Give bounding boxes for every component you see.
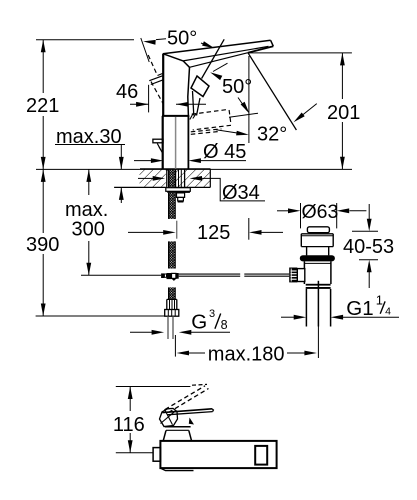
- svg-text:Ø63: Ø63: [302, 201, 339, 223]
- svg-text:3: 3: [209, 308, 215, 320]
- svg-text:50°: 50°: [167, 28, 197, 50]
- svg-text:1: 1: [376, 293, 383, 308]
- svg-text:max.30: max.30: [56, 126, 122, 148]
- svg-text:125: 125: [197, 222, 230, 244]
- svg-text:221: 221: [26, 95, 59, 117]
- svg-text:4: 4: [385, 305, 391, 317]
- svg-text:390: 390: [26, 234, 59, 256]
- svg-text:50°: 50°: [222, 76, 252, 98]
- svg-text:G: G: [191, 310, 207, 333]
- svg-text:116: 116: [113, 414, 145, 436]
- svg-text:32°: 32°: [257, 124, 287, 146]
- svg-text:300: 300: [72, 219, 105, 241]
- svg-text:G1: G1: [346, 297, 373, 320]
- svg-text:Ø34: Ø34: [222, 182, 260, 204]
- svg-text:40-53: 40-53: [343, 236, 394, 258]
- svg-text:8: 8: [221, 318, 228, 332]
- svg-text:46: 46: [116, 81, 138, 103]
- svg-text:Ø 45: Ø 45: [203, 141, 246, 163]
- svg-text:max.180: max.180: [208, 344, 285, 366]
- svg-text:201: 201: [327, 102, 360, 124]
